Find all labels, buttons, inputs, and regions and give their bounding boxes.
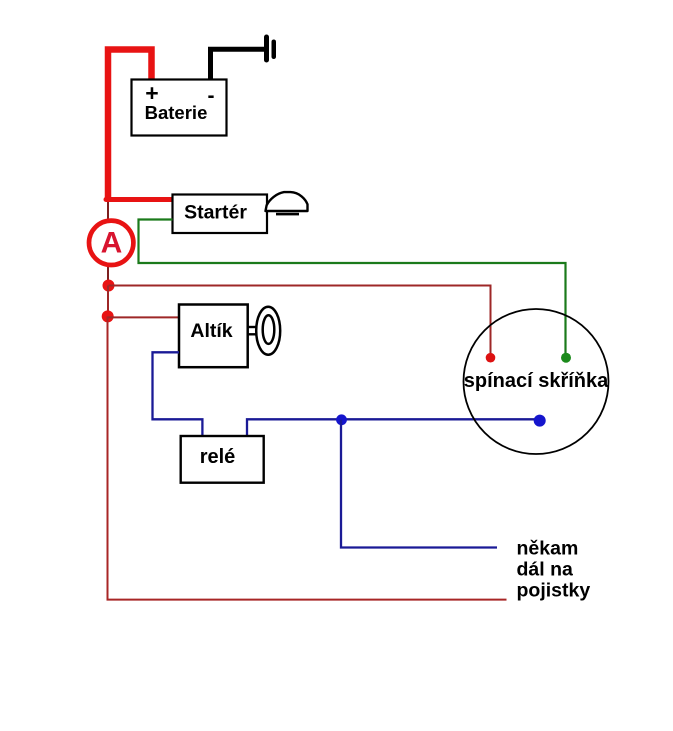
junction dot red upper [103,280,115,292]
key symbol underline bar [276,213,299,216]
relé box [181,436,264,483]
svg-text:-: - [208,85,215,108]
wire red thin vertical from battery feed through ammeter A down to junctions [107,200,109,286]
svg-text:Altík: Altík [190,320,232,342]
startér box [173,195,268,234]
spínací skříňka circle [464,309,609,454]
svg-text:A: A [101,226,123,259]
junction dot blue [336,414,347,425]
svg-text:relé: relé [200,446,236,468]
wire blue down to fuses note [341,420,497,548]
wire blue from relé to spínací skříňka [247,419,540,435]
terminal dot red in spínací skříňka [486,353,496,363]
wire black battery negative [211,49,266,82]
wire red thin long left vertical and bottom run to fuses [108,316,507,599]
wire red thin between junctions [107,286,109,317]
svg-text:pojistky: pojistky [517,580,591,602]
ground symbol bar long [264,35,269,63]
terminal dot blue in spínací skříňka [534,415,546,427]
key/bell symbol on startér [266,192,308,211]
svg-text:dál na: dál na [517,559,574,581]
svg-text:Baterie: Baterie [145,102,208,123]
alternator shaft line upper [248,326,263,328]
svg-text:Startér: Startér [184,202,247,224]
wire green from startér to spínací skříňka [139,220,566,358]
alternator pulley outer ellipse [256,307,280,355]
svg-text:spínací skříňka: spínací skříňka [464,370,609,392]
altík box [179,305,248,368]
wire red thick to startér [106,197,173,202]
battery box Baterie [132,80,227,136]
junction dot red lower [102,310,114,322]
ground symbol bar short [272,40,277,60]
ammeter A circle [89,221,133,265]
wire red thick battery positive: from + terminal up, left and down to startér tee [108,50,152,200]
terminal dot green in spínací skříňka [561,353,571,363]
wire blue from altík to relé [153,352,203,435]
wire red thin to spínací skříňka [109,286,491,358]
wire red thin to altík [108,316,179,318]
alternator pulley inner ellipse [263,315,275,344]
alternator shaft line lower [248,333,263,335]
svg-text:někam: někam [517,538,579,560]
